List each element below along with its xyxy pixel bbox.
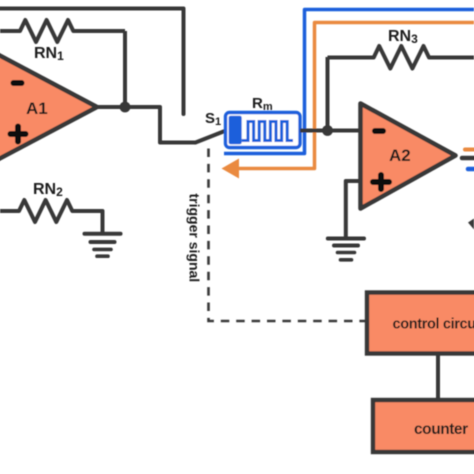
op-amp A1 (0, 53, 97, 161)
svg-text:S1: S1 (205, 110, 221, 128)
svg-text:RN2: RN2 (33, 181, 63, 199)
counter box (373, 400, 474, 452)
orange arrowhead (222, 159, 240, 179)
resistor RN3 (328, 46, 474, 69)
cut arrowhead mark bottom-right (468, 219, 474, 230)
wire top-left horizontal with stub down (0, 9, 184, 115)
svg-text:A2: A2 (389, 146, 411, 165)
resistor RN1 (0, 20, 125, 42)
svg-text:RN3: RN3 (388, 28, 418, 46)
node after Rm (322, 125, 333, 136)
ground (A2) (328, 239, 364, 260)
wire node to A2 inverting input (328, 129, 361, 133)
svg-text:trigger signal: trigger signal (187, 194, 203, 283)
wire node up to RN3 (326, 57, 330, 131)
memristor Rm (226, 113, 301, 148)
wire control circuit to counter (436, 354, 440, 401)
svg-text:A1: A1 (26, 99, 48, 118)
orange stub (465, 148, 474, 152)
svg-text:counter: counter (414, 421, 468, 438)
svg-text:RN1: RN1 (34, 45, 64, 63)
blue wire (loop from right edge around under memristor) (224, 10, 474, 154)
dashed trigger line (209, 149, 367, 322)
svg-text:Rm: Rm (252, 95, 273, 113)
wire Rm to node (300, 129, 328, 133)
ground (RN2) (85, 234, 121, 256)
wire feedback vertical to output node (123, 31, 127, 107)
wire A1 output to switch (97, 107, 196, 143)
blue stub (468, 167, 474, 172)
svg-text:control circuit: control circuit (393, 317, 474, 333)
control circuit box (367, 293, 474, 354)
wire A2 output stub (cut at edge) (462, 156, 474, 161)
orange wire with left arrow (237, 23, 474, 169)
resistor RN2 (0, 200, 103, 233)
node output A1 (120, 102, 131, 113)
wire A2 non-inverting to ground (346, 181, 361, 237)
switch S1 blade (196, 131, 227, 143)
op-amp A2 (361, 104, 456, 209)
